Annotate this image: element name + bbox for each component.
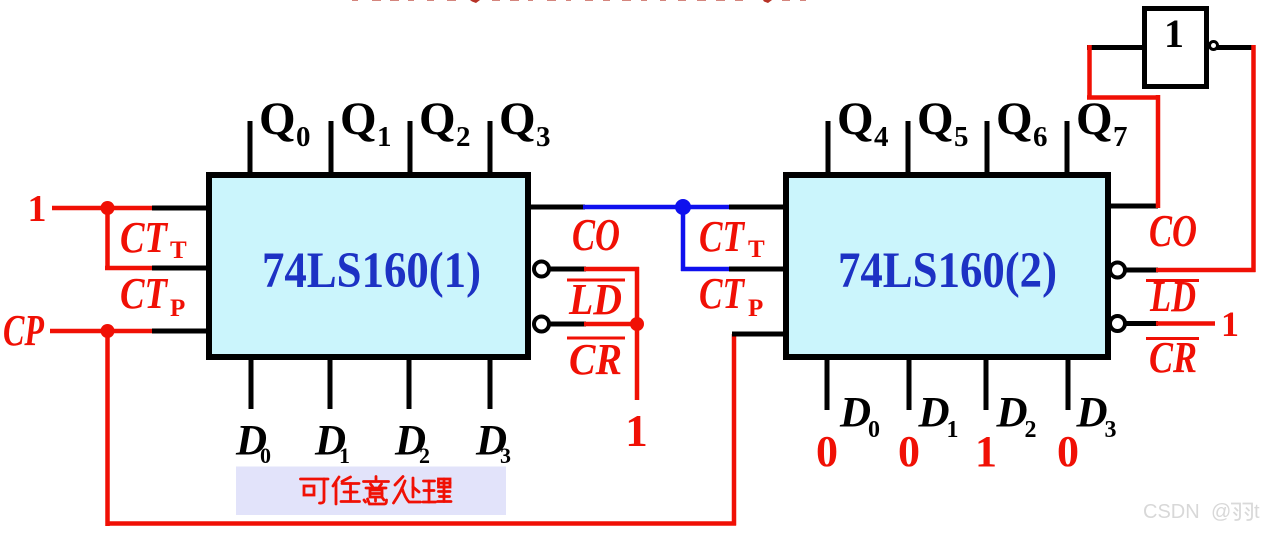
label Q0: [259, 93, 311, 153]
label D3 U2: [1076, 390, 1117, 444]
svg-text:74LS160(2): 74LS160(2): [838, 243, 1057, 299]
svg-text:1: 1: [975, 427, 997, 476]
wire 1 to CTT U1 red: [52, 206, 156, 211]
wire D0 pin U2: [825, 357, 830, 410]
svg-text:Q: Q: [419, 93, 456, 145]
wire CR U1 red: [584, 322, 639, 327]
inverter G1 bubble: [1210, 42, 1218, 50]
svg-text:1: 1: [947, 417, 959, 443]
wire CR U2 red: [1156, 321, 1215, 326]
wire D2 pin U1: [407, 357, 412, 409]
svg-text:D: D: [839, 390, 871, 437]
wire input red down: [1087, 45, 1092, 100]
chip U2 74LS160(2) body: [786, 175, 1108, 357]
svg-text:1: 1: [625, 406, 648, 456]
wire CO U2 black: [1107, 204, 1158, 209]
svg-text:0: 0: [260, 443, 271, 468]
note box 可任意处理: [236, 467, 506, 516]
svg-text:4: 4: [874, 121, 889, 153]
wire inverter input black: [1087, 45, 1144, 50]
label CTT U2: [699, 212, 765, 263]
wire input red to CO: [1156, 95, 1161, 208]
label D1 U1: [314, 418, 350, 469]
svg-text:Q: Q: [499, 93, 536, 145]
wire LD U2 black: [1126, 268, 1158, 273]
svg-text:@: @: [1211, 501, 1231, 523]
svg-text:1: 1: [1164, 11, 1184, 56]
label Q6: [996, 93, 1048, 153]
wire Q7 pin: [1065, 121, 1070, 175]
title fragment left: [470, 0, 480, 3]
svg-text:CT: CT: [699, 269, 746, 318]
chip U1 74LS160(1) body: [209, 175, 528, 357]
svg-text:CO: CO: [1149, 206, 1197, 256]
wire Q2 pin: [408, 121, 413, 175]
svg-text:3: 3: [536, 121, 551, 153]
hanzi 意: [375, 477, 378, 480]
wire into CTT U2 black: [729, 205, 786, 210]
svg-text:Q: Q: [917, 93, 954, 145]
wire input red across: [1087, 95, 1160, 100]
wire D3 pin U1: [488, 357, 493, 409]
svg-text:Q: Q: [259, 93, 296, 145]
wire CTP U2 black: [729, 267, 786, 272]
svg-text:CT: CT: [120, 213, 169, 262]
svg-text:Q: Q: [340, 93, 377, 145]
wire D0 pin U1: [249, 357, 254, 409]
bubble CR U1: [534, 317, 549, 332]
label CTT U1: [120, 213, 187, 264]
svg-text:2: 2: [1025, 417, 1037, 443]
wire D1 pin U1: [328, 357, 333, 409]
wire Q1 pin: [329, 121, 334, 175]
wire branch down red: [105, 208, 110, 268]
hanzi 任: [333, 477, 339, 486]
wire Q4 pin: [826, 121, 831, 175]
bubble LD U2: [1110, 263, 1125, 278]
svg-text:D: D: [996, 390, 1028, 437]
junction dot LD-CR: [630, 317, 644, 331]
svg-text:1: 1: [28, 188, 47, 230]
hanzi 理: [424, 480, 435, 483]
label D0 U1: [235, 418, 271, 469]
svg-text:P: P: [748, 295, 763, 322]
label Q2: [419, 93, 471, 153]
wire blue right: [681, 267, 731, 272]
bubble CR U2: [1110, 316, 1125, 331]
bubble LD U1: [534, 262, 549, 277]
wire CR U2 black: [1126, 321, 1158, 326]
label Q7: [1076, 93, 1128, 153]
svg-text:0: 0: [868, 417, 880, 443]
svg-text:0: 0: [296, 121, 311, 153]
wire Q0 pin: [248, 121, 253, 175]
label D2 U2: [996, 390, 1037, 444]
wire LD-CR vertical red: [635, 267, 640, 400]
label CR U1 overline: [567, 337, 625, 340]
svg-text:7: 7: [1113, 121, 1128, 153]
label Q5: [917, 93, 969, 153]
svg-text:0: 0: [898, 427, 920, 476]
svg-text:6: 6: [1033, 121, 1048, 153]
wire CP U2 black: [732, 332, 786, 337]
wire CTT U1 black: [152, 206, 208, 211]
svg-text:Q: Q: [837, 93, 874, 145]
label D3 U1: [475, 418, 511, 469]
svg-text:0: 0: [1057, 427, 1079, 476]
svg-text:CT: CT: [120, 269, 169, 318]
svg-text:P: P: [170, 295, 185, 322]
label D2 U1: [394, 418, 430, 469]
wire LD U2 red: [1156, 268, 1256, 273]
title baseline specks: [352, 0, 806, 1]
wire CTP U1 black: [152, 266, 208, 271]
svg-text:74LS160(1): 74LS160(1): [262, 243, 481, 299]
svg-text:D: D: [1076, 390, 1108, 437]
junction dot CP: [101, 324, 115, 338]
svg-text:Q: Q: [1076, 93, 1113, 145]
wire inverter output black: [1217, 45, 1252, 50]
watermark yu glyph: [1231, 504, 1252, 521]
svg-text:1: 1: [1221, 304, 1239, 344]
hanzi 处: [395, 477, 403, 486]
svg-text:CP: CP: [3, 306, 45, 355]
svg-text:1: 1: [377, 121, 392, 153]
junction dot node1: [101, 201, 115, 215]
label CTP U2: [699, 269, 763, 322]
svg-text:T: T: [748, 236, 765, 263]
svg-text:CR: CR: [1149, 333, 1197, 382]
wire D2 pin U2: [984, 357, 989, 410]
inverter G1 body: [1145, 9, 1207, 87]
label LD U2 overline: [1146, 279, 1199, 282]
label Q4: [837, 93, 889, 153]
node blue junction: [675, 199, 691, 215]
svg-text:CR: CR: [569, 335, 622, 384]
wire D1 pin U2: [907, 357, 912, 410]
hanzi 可: [301, 478, 329, 481]
svg-text:Q: Q: [996, 93, 1033, 145]
label Q3: [499, 93, 551, 153]
svg-text:1: 1: [339, 443, 350, 468]
note text 可任意处理: [301, 477, 452, 505]
wire CO U1 black: [528, 205, 585, 210]
wire output red down to LD: [1251, 45, 1256, 272]
svg-text:3: 3: [500, 443, 511, 468]
label D1 U2: [918, 390, 959, 444]
wire branch right red: [105, 266, 156, 271]
svg-text:T: T: [170, 237, 187, 264]
wire CP red: [50, 329, 156, 334]
wire CP up to U2: [732, 334, 737, 526]
wire D3 pin U2: [1066, 357, 1071, 410]
svg-text:3: 3: [1105, 417, 1117, 443]
wire CP down: [105, 331, 110, 526]
wire blue down: [681, 207, 686, 271]
svg-text:D: D: [918, 390, 950, 437]
wire Q3 pin: [488, 121, 493, 175]
label CTP U1: [120, 269, 185, 322]
title fragment right: [763, 0, 772, 3]
label LD U1 overline: [567, 279, 625, 282]
svg-text:2: 2: [456, 121, 471, 153]
wire Q5 pin: [906, 121, 911, 175]
label Q1: [340, 93, 392, 153]
svg-text:CO: CO: [572, 210, 620, 260]
svg-text:LD: LD: [1149, 272, 1196, 321]
svg-text:LD: LD: [568, 275, 622, 324]
label CR U2 overline: [1146, 337, 1199, 340]
wire CR U1 black: [550, 322, 586, 327]
svg-text:2: 2: [419, 443, 430, 468]
svg-text:0: 0: [816, 427, 838, 476]
svg-text:t: t: [1254, 501, 1260, 523]
svg-text:CSDN: CSDN: [1143, 501, 1200, 523]
wire LD U1 red: [584, 267, 639, 272]
label D0 U2: [839, 390, 880, 444]
svg-text:CT: CT: [699, 212, 746, 261]
wire LD U1 black: [550, 267, 586, 272]
svg-text:5: 5: [954, 121, 969, 153]
wire CP bottom rail: [106, 521, 737, 526]
wire CP U1 black: [152, 329, 208, 334]
wire CO-CTT blue: [583, 205, 731, 210]
wire Q6 pin: [985, 121, 990, 175]
